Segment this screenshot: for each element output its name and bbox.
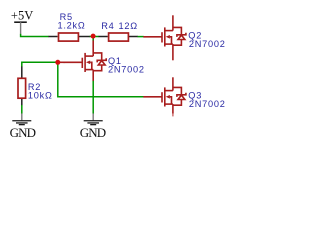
svg-text:GND: GND	[80, 125, 106, 140]
svg-text:12Ω: 12Ω	[119, 21, 138, 31]
resistor R5	[49, 33, 91, 41]
wire junction down and right to Q3 gate	[58, 62, 144, 97]
svg-text:R4: R4	[101, 21, 114, 31]
wire R5 to R4 (node A)	[90, 36, 99, 38]
wire R4 to Q2 gate	[138, 36, 144, 38]
transistor Q3 2N7002	[143, 77, 186, 116]
wire R2 top / gate net horizontal	[22, 62, 64, 67]
svg-text:10kΩ: 10kΩ	[28, 90, 53, 100]
junction node A dot	[91, 34, 96, 39]
svg-text:GND: GND	[10, 125, 36, 140]
transistor Q2 2N7002	[143, 15, 186, 60]
ground GND1	[10, 113, 36, 140]
ground GND2	[80, 113, 106, 140]
wire Q1 source down to GND	[92, 81, 94, 114]
resistor R2	[18, 67, 26, 106]
svg-text:2N7002: 2N7002	[108, 64, 145, 74]
wire +5V to R5	[21, 34, 49, 37]
svg-text:+5V: +5V	[11, 9, 33, 23]
wire R2 bottom to GND	[21, 105, 23, 114]
wire junction to Q1 gate (pin stub)	[58, 61, 65, 63]
svg-text:2N7002: 2N7002	[189, 99, 226, 109]
power +5V supply symbol	[11, 9, 33, 35]
transistor Q1 2N7002	[64, 40, 107, 81]
junction gate net dot	[55, 60, 60, 65]
svg-text:2N7002: 2N7002	[189, 39, 226, 49]
wire node A down to Q1 drain	[92, 37, 94, 42]
resistor R4	[99, 33, 138, 41]
svg-text:1.2kΩ: 1.2kΩ	[58, 21, 86, 31]
